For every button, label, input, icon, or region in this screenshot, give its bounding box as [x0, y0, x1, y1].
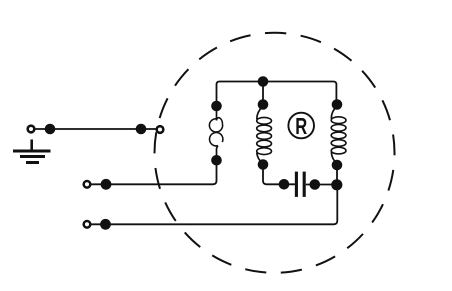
terminal T1 (open circle, line input) — [28, 126, 35, 133]
coil L2 (main winding, spring loops) — [257, 106, 272, 164]
junction dot at end of T1 wire — [136, 124, 147, 135]
junction dot left of capacitor — [279, 179, 290, 190]
wire T1 to stator terminal — [36, 128, 157, 130]
junction dot on T3 wire — [100, 219, 111, 230]
junction dot right of capacitor — [310, 179, 321, 190]
coil L1 (left winding, two circular loops) — [209, 106, 223, 160]
aux winding bottom dot — [332, 160, 343, 171]
aux winding top dot — [332, 99, 343, 110]
wire T3 to auxiliary branch bottom — [92, 185, 338, 224]
stator terminal (open circle on boundary) — [157, 126, 164, 133]
left winding top dot — [211, 101, 222, 112]
wire aux winding bottom to junction — [336, 165, 338, 185]
top rail wire — [217, 82, 337, 107]
svg-text:R: R — [295, 114, 307, 139]
wire T2 to left winding bottom — [92, 160, 217, 184]
main winding bottom dot — [258, 159, 269, 170]
wire middle branch top — [262, 82, 264, 105]
coil L3 (auxiliary winding, spring loops) — [331, 106, 346, 164]
junction dot aux branch / capacitor / bottom wire — [331, 179, 342, 190]
ground — [13, 140, 51, 163]
left winding bottom dot — [211, 155, 222, 166]
rotor label R (circled) — [288, 113, 314, 140]
wire main winding bottom to capacitor — [263, 165, 295, 185]
junction dot on T2 wire — [101, 179, 112, 190]
terminal T3 (open circle, bottom row) — [84, 221, 91, 228]
junction dot on T1 wire — [45, 124, 56, 135]
junction dot on top rail (middle branch tap) — [258, 76, 269, 87]
terminal T2 (open circle, middle row) — [84, 181, 91, 188]
capacitor C — [296, 172, 304, 197]
wire capacitor to aux branch — [306, 184, 338, 186]
main winding top dot — [258, 99, 269, 110]
machine boundary (dashed circle) — [155, 33, 395, 273]
